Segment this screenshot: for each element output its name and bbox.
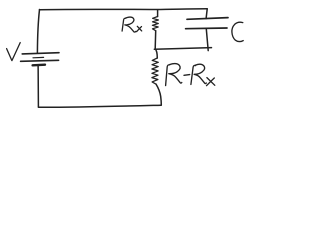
label Rx subscript x [137, 26, 142, 31]
label R-Rx subscript x [207, 78, 215, 86]
label R-Rx first R [166, 64, 182, 86]
wire capacitor top stub [206, 9, 207, 19]
label V (battery voltage) [7, 43, 21, 61]
wire battery - terminal down [37, 65, 39, 107]
label R-Rx second R [191, 64, 206, 84]
capacitor C top plate [187, 18, 228, 20]
resistor Rx zigzag [152, 17, 158, 31]
wire node to capacitor bottom [154, 48, 211, 50]
resistor R-Rx zigzag [152, 58, 158, 84]
wire junction to R-Rx [155, 49, 157, 58]
wire capacitor bottom stub [206, 29, 208, 51]
wire top (battery to capacitor corner) [40, 8, 208, 11]
battery V plate 1 (long, top) [22, 53, 59, 54]
capacitor C bottom plate [186, 27, 227, 30]
label R-Rx minus sign [184, 74, 190, 77]
battery V plate 3 (long) [21, 60, 59, 61]
battery V plate 4 (short, thick) [33, 63, 45, 66]
label Rx letter R [122, 17, 137, 32]
battery V plate 2 (short) [33, 56, 44, 58]
wire left (top-left corner down to battery + terminal) [37, 10, 39, 53]
label C (capacitance) [232, 22, 243, 41]
wire Rx bottom lead to node junction [154, 31, 157, 49]
wire Rx top lead from top wire [157, 10, 159, 17]
wire bottom-right riser [156, 84, 161, 105]
wire bottom [38, 105, 161, 107]
